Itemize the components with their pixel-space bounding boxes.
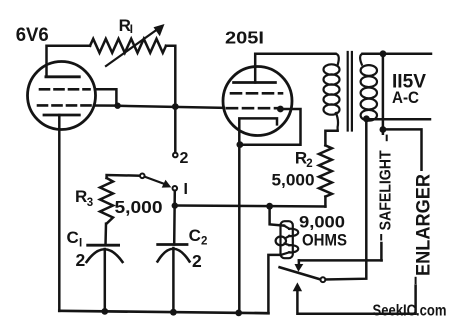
- svg-text:2: 2: [201, 236, 207, 248]
- switch S1 blade: [145, 177, 164, 184]
- svg-text:2: 2: [180, 150, 189, 167]
- svg-text:ENLARGER: ENLARGER: [413, 174, 435, 276]
- capacitor C2 top plate: [158, 243, 187, 246]
- svg-text:A-C: A-C: [392, 88, 419, 107]
- capacitor C2 curved plate: [158, 249, 190, 262]
- wire V1 plate up and right to R1: [47, 46, 91, 77]
- junction dot rail C1: [101, 308, 108, 315]
- wire 115V bottom lead: [366, 118, 430, 121]
- svg-text:2: 2: [192, 251, 202, 271]
- junction dot relay tap: [266, 203, 273, 210]
- junction dot grid tie: [114, 103, 120, 109]
- wire secondary bottom down to relay contact: [325, 119, 366, 280]
- wire safelight bottom stub: [380, 243, 383, 260]
- relay coil body: [276, 221, 299, 258]
- svg-text:5,000: 5,000: [272, 171, 315, 190]
- resistor R1 zigzag (variable): [90, 39, 166, 53]
- switch S1 blade arrowhead: [162, 180, 172, 188]
- wire enlarger bottom return: [297, 286, 415, 314]
- tube V1 cathode bar: [44, 114, 79, 117]
- svg-text:I: I: [184, 181, 188, 198]
- resistor R1 arrow shaft: [106, 28, 160, 66]
- svg-text:I: I: [79, 238, 82, 250]
- svg-text:205I: 205I: [225, 27, 264, 47]
- tube V2 cathode and wire down to rail: [239, 118, 277, 312]
- wire R1 right end down to node 2: [166, 46, 175, 153]
- switch S1 pivot circle: [140, 174, 145, 179]
- tube V1 plate bar: [46, 75, 79, 78]
- tube V1 grid (lower, dashed): [38, 104, 92, 107]
- relay blade: [280, 267, 320, 279]
- svg-text:C: C: [189, 226, 201, 245]
- tube V2 plate bar: [234, 81, 276, 84]
- wire V2 grid to cathode link: [240, 109, 301, 145]
- svg-text:SAFELIGHT: SAFELIGHT: [378, 150, 395, 230]
- wire C1 down to rail: [104, 249, 107, 312]
- tube V1 6V6 envelope: [28, 62, 96, 130]
- tube V2 grid (lower, dashed): [227, 107, 277, 110]
- wire V1 grid out to dot: [94, 104, 118, 107]
- safelight label tick: [386, 136, 388, 141]
- svg-text:3: 3: [87, 197, 93, 209]
- transformer T1 secondary winding: [360, 54, 377, 121]
- svg-text:2: 2: [306, 158, 312, 170]
- safelight bottom tick: [380, 235, 382, 240]
- wire R2 top to transformer primary bottom: [325, 131, 337, 146]
- arrow up to relay blade: [293, 282, 302, 291]
- bottom rail wire: [59, 311, 268, 313]
- resistor R2 zigzag: [319, 145, 332, 196]
- junction dot rail C2: [170, 309, 177, 316]
- wire grid bus to V2: [118, 106, 224, 108]
- junction dot secondary bottom: [363, 115, 370, 122]
- wire enlarger branch: [383, 129, 422, 169]
- svg-text:OHMS: OHMS: [302, 231, 347, 250]
- wire R3 bottom to C1: [104, 224, 107, 246]
- wire C2 down to rail: [172, 248, 175, 312]
- wire terminal 1 down to C2: [173, 191, 176, 245]
- enlarger bottom tick: [415, 278, 417, 283]
- junction dot node 1: [172, 202, 178, 208]
- node wire 1-to-R2 horizontal: [175, 206, 326, 207]
- junction dot V2 grid: [277, 106, 284, 113]
- relay coil lead bottom: [268, 255, 281, 313]
- wire V1 grids tie jog: [95, 89, 116, 104]
- junction dot secondary top: [380, 50, 387, 57]
- arrow down to relay blade: [298, 260, 301, 264]
- relay coil lead top: [270, 206, 284, 225]
- tube V1 grid (upper, dashed): [40, 88, 90, 91]
- transformer T1 core: [347, 52, 349, 131]
- capacitor C1 curved plate: [87, 249, 123, 262]
- svg-text:9,000: 9,000: [299, 213, 345, 232]
- svg-text:R: R: [75, 187, 87, 206]
- wire safelight top stub: [382, 54, 385, 134]
- relay contact circle: [321, 277, 326, 282]
- wire contact bar horizontal: [299, 259, 382, 262]
- svg-text:C: C: [67, 228, 79, 247]
- terminal 2 circle: [173, 153, 178, 158]
- transformer T1 primary winding: [324, 54, 340, 131]
- tube V2 grid (upper, dashed): [231, 92, 282, 95]
- svg-text:2: 2: [76, 250, 86, 270]
- junction dot rail V2 cathode: [235, 310, 242, 317]
- capacitor C1 top plate: [88, 244, 119, 247]
- wire R2 bottom: [324, 197, 327, 207]
- svg-text:6V6: 6V6: [16, 25, 49, 46]
- resistor R3 zigzag: [100, 178, 113, 224]
- wire V2 plate up to transformer: [255, 54, 335, 83]
- wire cathode V1 down to bottom rail: [58, 115, 61, 311]
- junction dot bus x R1: [172, 103, 179, 110]
- svg-text:I: I: [130, 24, 133, 36]
- junction dot safelight/enlarger branch: [380, 126, 387, 133]
- switch S1 lead from R3: [107, 175, 140, 178]
- terminal 1 circle: [173, 186, 178, 191]
- tube V2 2051 envelope: [223, 67, 292, 136]
- junction dot V2 cathode link: [237, 141, 244, 148]
- resistor R1 arrowhead: [154, 24, 165, 36]
- wire 115V top lead: [363, 53, 432, 56]
- svg-text:5,000: 5,000: [115, 197, 163, 217]
- svg-text:SeekIC.com: SeekIC.com: [373, 303, 447, 320]
